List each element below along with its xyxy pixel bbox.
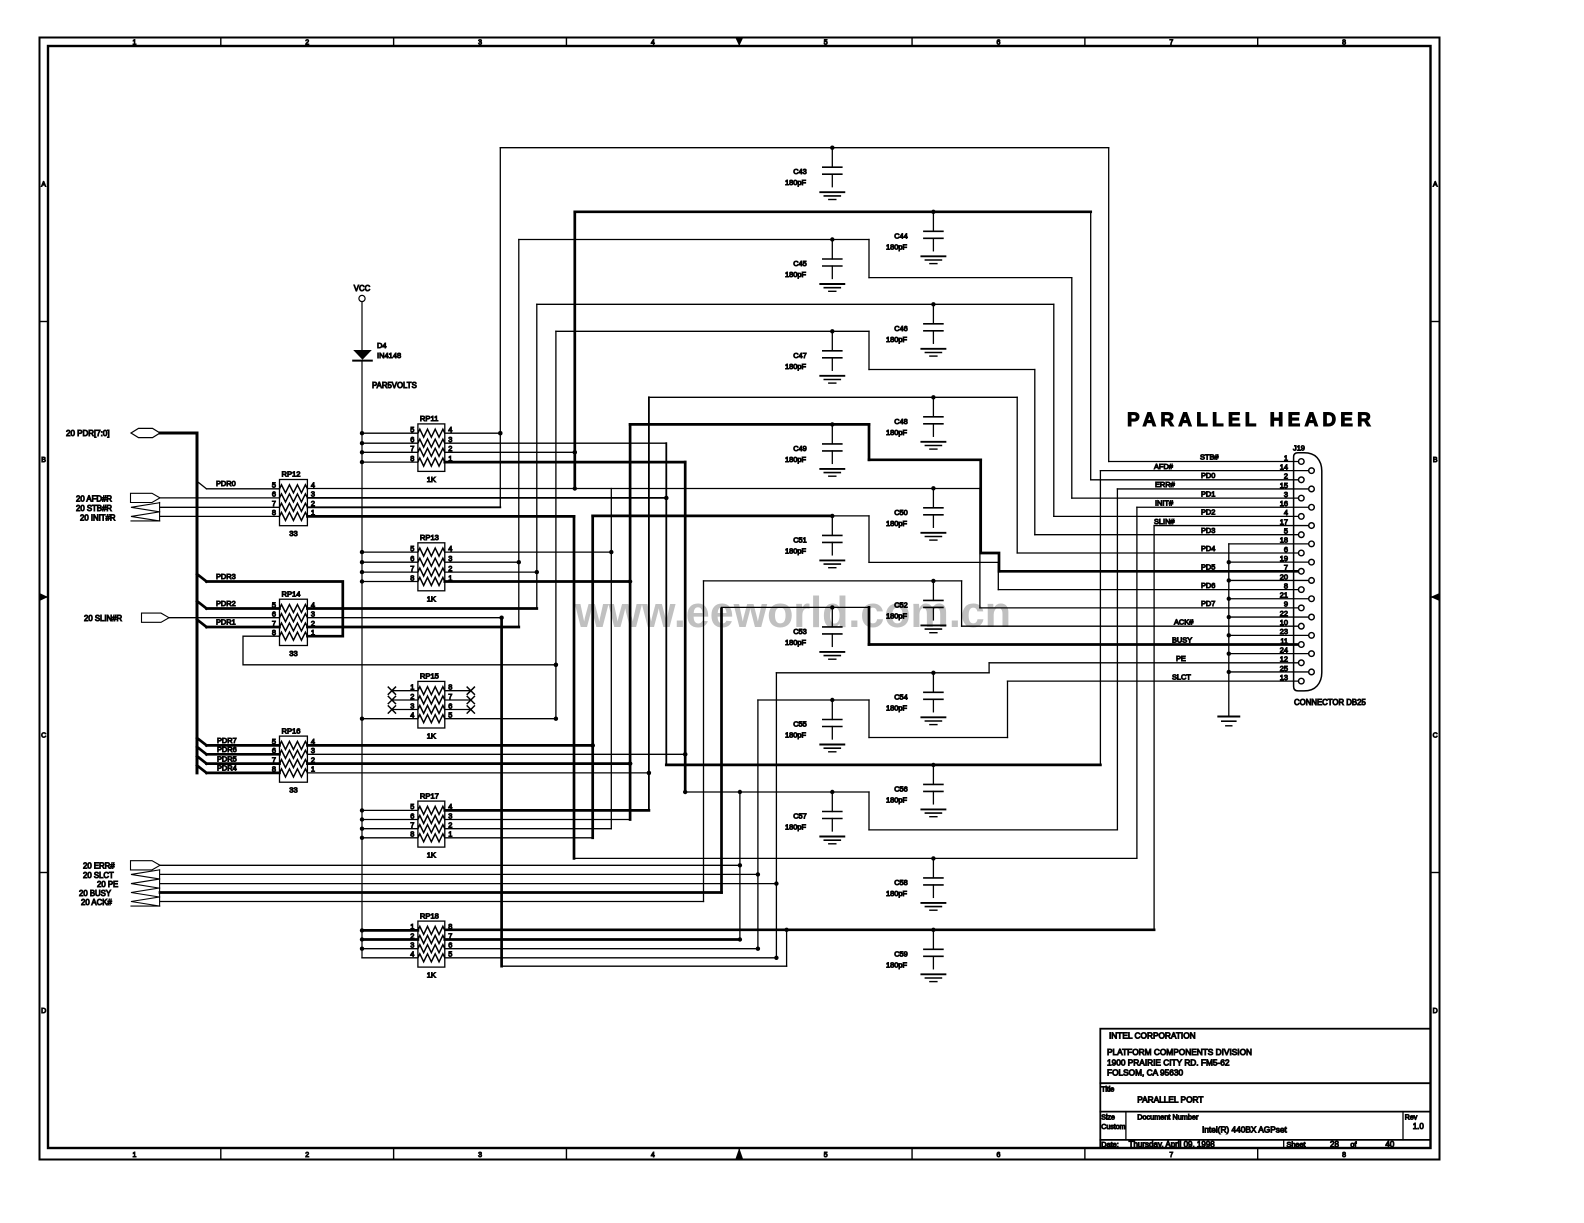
svg-text:PDR5: PDR5	[217, 754, 237, 763]
svg-text:C: C	[41, 732, 46, 739]
svg-text:180pF: 180pF	[785, 546, 806, 555]
svg-text:IN4148: IN4148	[377, 351, 401, 360]
wire PD4 out row	[307, 772, 649, 774]
svg-text:BUSY: BUSY	[1172, 636, 1192, 645]
svg-text:8: 8	[1342, 1152, 1346, 1159]
svg-text:20 PDR[7:0]: 20 PDR[7:0]	[66, 429, 110, 438]
wire ERR# port row	[160, 864, 740, 866]
wire RP13 left pin to PAR5VOLTS	[362, 561, 418, 563]
svg-text:PAR5VOLTS: PAR5VOLTS	[372, 381, 417, 390]
wire PD1 stepped row	[869, 277, 1072, 279]
wire RP11 pin4 row	[445, 432, 501, 434]
title block size cell divider	[1125, 1112, 1127, 1140]
wire RP17 left pin to PAR5VOLTS	[362, 828, 418, 830]
svg-text:8: 8	[272, 508, 276, 517]
wire trunk PD1 x=518.8	[518, 240, 520, 628]
input port SLCT (chevron)	[131, 870, 160, 879]
wire descender AFD#	[1099, 471, 1101, 765]
wire step SLCT at x=869	[868, 700, 870, 738]
wire RP17 pin1 row	[445, 837, 593, 839]
svg-text:C56: C56	[894, 784, 908, 793]
input port SLIN#R	[142, 613, 170, 622]
title block sheet cell divider	[1283, 1140, 1285, 1148]
svg-text:7: 7	[272, 499, 276, 508]
wire PDR3 row (thick)	[207, 582, 343, 637]
svg-text:1K: 1K	[427, 732, 436, 741]
wire RP13 pin1 row (thick)	[445, 580, 630, 583]
title block divider company/title	[1100, 1082, 1430, 1084]
bus tap PDR1	[197, 620, 207, 628]
wire BUSY stub row (thick)	[869, 643, 1299, 646]
wire fan vertical PD3	[1034, 370, 1036, 535]
svg-text:SLCT: SLCT	[1172, 672, 1191, 681]
svg-text:180pF: 180pF	[785, 270, 806, 279]
svg-text:C59: C59	[894, 949, 908, 958]
border section ticks top/bottom	[220, 38, 222, 47]
wire trunk ACK# x=703.5	[703, 581, 705, 902]
svg-text:1K: 1K	[427, 594, 436, 603]
input port BUSY (chevron)	[131, 888, 160, 897]
wire PD3 stepped row	[869, 369, 1035, 371]
ground for C49	[820, 468, 844, 470]
wire RP18 left pin to PAR5VOLTS	[362, 929, 418, 932]
svg-text:Size: Size	[1101, 1114, 1115, 1121]
svg-text:180pF: 180pF	[886, 703, 907, 712]
wire trunk ERR# x=739.9	[739, 792, 741, 940]
wire ERR# stepped row	[869, 829, 1117, 831]
connector pin circles	[1299, 459, 1305, 465]
bus tap PDR6	[197, 747, 207, 755]
no-connect X RP15 right	[445, 699, 471, 701]
svg-text:20 AFD#R: 20 AFD#R	[76, 495, 112, 504]
svg-text:180pF: 180pF	[886, 335, 907, 344]
wire RP17 left pin to PAR5VOLTS	[362, 819, 418, 821]
title block frame	[1100, 1029, 1430, 1148]
svg-text:13: 13	[1280, 673, 1288, 682]
svg-text:7: 7	[1169, 40, 1173, 47]
wire RP13 pin3 row	[445, 561, 519, 563]
capacitor C49 180pF	[830, 422, 834, 426]
capacitor C53 180pF	[830, 605, 834, 609]
wire ground bus	[1228, 544, 1230, 717]
wire stub SLIN# to pin 17	[1154, 525, 1309, 527]
svg-text:1: 1	[1284, 453, 1288, 462]
svg-text:PD3: PD3	[1201, 526, 1215, 535]
svg-text:FOLSOM, CA 95630: FOLSOM, CA 95630	[1107, 1068, 1183, 1078]
svg-text:Thursday, April 09, 1998: Thursday, April 09, 1998	[1129, 1140, 1216, 1149]
svg-text:D: D	[1433, 1008, 1438, 1015]
input port ACK# (chevron)	[131, 897, 160, 906]
wire stub ACK# to pin 10	[962, 625, 1299, 627]
ground for C44	[921, 255, 945, 257]
wire descender INIT#	[1136, 507, 1138, 858]
svg-text:C51: C51	[793, 535, 807, 544]
border section ticks left/right	[40, 321, 49, 323]
wire trunk PD3 x=555.9	[555, 331, 557, 718]
svg-text:8: 8	[1342, 40, 1346, 47]
svg-text:28: 28	[1330, 1140, 1339, 1149]
svg-text:20 BUSY: 20 BUSY	[79, 889, 112, 898]
wire PD6 stepped row	[869, 561, 998, 563]
svg-text:RP18: RP18	[420, 911, 439, 920]
wire step ERR# at x=869	[868, 792, 870, 830]
svg-text:C43: C43	[793, 167, 807, 176]
wire trunk AFD# x=666.3	[665, 443, 667, 765]
svg-text:3: 3	[478, 40, 482, 47]
wire PDR2 row into RP14 (thick)	[207, 607, 280, 610]
wire PDR0 out row (continuous to fan riser)	[307, 488, 980, 490]
ground for C55	[820, 744, 844, 746]
svg-text:14: 14	[1280, 462, 1288, 471]
ground for C53	[820, 651, 844, 653]
wire ground pin 20	[1229, 579, 1309, 581]
wire descender ERR#	[1116, 489, 1118, 830]
capacitor C44 180pF	[931, 210, 935, 214]
title block divider title/size	[1100, 1111, 1430, 1113]
resistor pack RP13 1K	[418, 543, 445, 591]
svg-text:PD5: PD5	[1201, 563, 1215, 572]
svg-text:C49: C49	[793, 444, 807, 453]
svg-text:PARALLEL PORT: PARALLEL PORT	[1137, 1094, 1203, 1104]
svg-text:20 INIT#R: 20 INIT#R	[80, 513, 116, 522]
wire RP18 pin4 to PAR5VOLTS (rail end)	[362, 957, 418, 959]
wire ground pin 24	[1229, 653, 1309, 655]
svg-text:PDR3: PDR3	[216, 572, 236, 581]
resistor pack RP14 33	[280, 599, 308, 645]
svg-text:40: 40	[1385, 1140, 1394, 1149]
svg-text:180pF: 180pF	[785, 638, 806, 647]
wire trunk PD6 x=685.2 (thick)	[684, 462, 687, 792]
svg-text:PD6: PD6	[1201, 581, 1215, 590]
svg-text:180pF: 180pF	[785, 823, 806, 832]
wire SLCT stepped row	[869, 737, 1008, 739]
input port PE (chevron)	[131, 879, 160, 888]
wire RP17 left pin to PAR5VOLTS	[362, 809, 418, 811]
svg-text:D4: D4	[377, 341, 387, 350]
wire trunk PE x=776.4	[775, 673, 777, 958]
border inner frame	[48, 46, 1431, 1148]
svg-text:4: 4	[651, 40, 655, 47]
wire RP18 left pin to PAR5VOLTS	[362, 938, 418, 941]
svg-text:20 SLIN#R: 20 SLIN#R	[84, 614, 123, 623]
svg-text:4: 4	[651, 1152, 655, 1159]
wire trunk SLCT x=757.9	[757, 700, 759, 949]
wire stub PD1 to pin 3	[1072, 497, 1299, 499]
svg-text:6: 6	[997, 1152, 1001, 1159]
wire PDR1 row into RP14 (thick)	[207, 626, 280, 629]
svg-text:PDR6: PDR6	[217, 745, 237, 754]
title block rev cell divider	[1402, 1112, 1404, 1140]
title block divider size/date	[1100, 1139, 1430, 1141]
wire PDR4 row into RP16 (thick)	[207, 772, 280, 775]
capacitor C54 180pF	[931, 671, 935, 675]
wire fan vertical STB#	[1108, 148, 1110, 462]
wire PE port row	[160, 883, 776, 885]
svg-text:ERR#: ERR#	[1155, 480, 1176, 489]
svg-text:1K: 1K	[427, 475, 436, 484]
bus PDR vertical	[196, 433, 199, 773]
wire ground pin 19	[1229, 561, 1309, 563]
wire RP13 left pin to PAR5VOLTS	[362, 571, 418, 573]
svg-text:Rev: Rev	[1405, 1114, 1418, 1121]
wire C57/ERR# row	[685, 791, 869, 793]
wire C56/AFD# row (thick)	[666, 764, 1100, 767]
no-connect X RP15 left	[392, 709, 418, 711]
svg-text:3: 3	[478, 1152, 482, 1159]
svg-text:B: B	[41, 457, 46, 464]
svg-text:J19: J19	[1293, 444, 1305, 453]
svg-text:Sheet: Sheet	[1287, 1140, 1306, 1149]
wire trunk PD2 x=536.8	[536, 304, 538, 608]
svg-text:180pF: 180pF	[886, 428, 907, 437]
wire SLIN# out row	[307, 617, 501, 619]
wire SLCT port row	[160, 873, 758, 875]
wire PAR5VOLTS vertical rail	[361, 361, 363, 958]
ground for C46	[921, 348, 945, 350]
wire PD3 out of RP14 pin8	[243, 636, 556, 665]
wire trunk INIT# x=574.0 (thick)	[573, 516, 576, 858]
wire C46/PD2 row	[537, 303, 1054, 305]
wire stub INIT# to pin 16	[1137, 506, 1309, 508]
wire PD5 stepped row (thick)	[869, 458, 981, 461]
wire RP13 left pin to PAR5VOLTS	[362, 551, 418, 553]
svg-text:PARALLEL HEADER: PARALLEL HEADER	[1127, 410, 1375, 431]
wire C48/PD6 row	[649, 396, 1017, 398]
svg-text:6: 6	[272, 490, 276, 499]
ground for C45	[820, 283, 844, 285]
svg-text:B: B	[1433, 457, 1438, 464]
wire fan vertical ACK#	[961, 581, 963, 626]
port group left rail	[159, 502, 161, 521]
svg-text:C46: C46	[894, 324, 908, 333]
wire RP13 pin4 row	[445, 551, 612, 553]
wire trunk BUSY x=721.5 (thick)	[720, 609, 723, 893]
capacitor C50 180pF	[931, 486, 935, 490]
wire RP17 pin2 row	[445, 828, 612, 830]
wire stub PD4 to pin 6	[1017, 552, 1298, 554]
svg-text:PLATFORM COMPONENTS DIVISION: PLATFORM COMPONENTS DIVISION	[1107, 1047, 1252, 1057]
wire SLIN# long drop	[500, 618, 503, 967]
svg-text:20 STB#R: 20 STB#R	[76, 504, 112, 513]
svg-text:Date:: Date:	[1101, 1140, 1118, 1149]
diode D4 IN4148	[353, 350, 372, 360]
svg-text:17: 17	[1280, 517, 1288, 526]
ground for C54	[921, 716, 945, 718]
wire trunk PD5 x=630.1 (thick)	[629, 424, 632, 819]
svg-text:RP16: RP16	[282, 726, 301, 735]
wire C58/INIT# row	[574, 857, 1137, 859]
svg-text:4: 4	[1284, 508, 1288, 517]
svg-text:180pF: 180pF	[785, 731, 806, 740]
wire RP18 pin5 row PE	[445, 957, 777, 959]
svg-text:1: 1	[132, 40, 136, 47]
svg-text:PD2: PD2	[1201, 508, 1215, 517]
bus tap PDR7	[197, 738, 207, 746]
svg-text:VCC: VCC	[354, 284, 371, 293]
wire RP13 pin2 row	[445, 571, 537, 573]
svg-text:PD0: PD0	[1201, 471, 1215, 480]
svg-text:33: 33	[289, 529, 297, 538]
wire fan vertical PD2	[1053, 304, 1055, 516]
wire step PD1 at x=869	[868, 240, 870, 278]
wire fan vertical PD6	[997, 562, 999, 589]
wire stub PE to pin 12	[989, 662, 1298, 664]
svg-text:20 ACK#: 20 ACK#	[81, 898, 112, 907]
svg-text:A: A	[41, 181, 46, 188]
svg-text:D: D	[41, 1008, 46, 1015]
wire step PD3 at x=869	[868, 331, 870, 369]
wire RP17 left pin to PAR5VOLTS	[362, 837, 418, 839]
svg-text:ACK#: ACK#	[1174, 617, 1194, 626]
svg-text:C54: C54	[894, 692, 908, 701]
wire step PD5 at x=869	[868, 424, 871, 459]
svg-text:2: 2	[1284, 472, 1288, 481]
svg-text:PDR4: PDR4	[217, 764, 237, 773]
bus tap PDR3	[197, 574, 207, 582]
svg-text:6: 6	[1284, 545, 1288, 554]
svg-text:RP14: RP14	[282, 589, 301, 598]
bus tap PDR5	[197, 756, 207, 764]
ground symbol at connector	[1218, 716, 1239, 718]
wire AFD#R port to RP12	[160, 497, 280, 499]
wire stub PD0 to pin 2	[1091, 479, 1299, 481]
wire descender SLCT	[1007, 681, 1009, 737]
svg-text:Intel(R) 440BX AGPset: Intel(R) 440BX AGPset	[1202, 1124, 1288, 1134]
capacitor C59 180pF	[931, 928, 935, 932]
wire RP18 pin6 row SLCT	[445, 948, 758, 950]
wire RP18 pin7 row ERR# (thick)	[445, 938, 740, 941]
bus tap PDR4	[197, 765, 207, 773]
wire ACK# port row	[160, 901, 704, 903]
capacitor C58 180pF	[931, 856, 935, 860]
no-connect X RP15 right	[445, 690, 471, 692]
svg-text:PDR1: PDR1	[216, 618, 236, 627]
svg-text:SLIN#: SLIN#	[1154, 517, 1175, 526]
wire step PD6-C51 at x=869	[868, 516, 870, 563]
svg-text:1K: 1K	[427, 971, 436, 980]
border center markers	[735, 38, 743, 47]
wire fan vertical PD7	[979, 488, 981, 608]
svg-text:180pF: 180pF	[886, 960, 907, 969]
wire stub PD6 to pin 8	[998, 589, 1298, 591]
svg-text:6: 6	[272, 610, 276, 619]
svg-text:PD4: PD4	[1201, 544, 1215, 553]
wire RP15 pin5 row	[445, 718, 556, 720]
ground for C47	[820, 375, 844, 377]
svg-text:Document Number: Document Number	[1137, 1112, 1199, 1121]
wire fan vertical PD0	[1090, 212, 1092, 480]
svg-text:C48: C48	[894, 417, 908, 426]
wire C49/PD5 row (thick)	[630, 423, 869, 426]
svg-text:Title: Title	[1101, 1087, 1114, 1094]
svg-text:5: 5	[824, 40, 828, 47]
resistor pack RP11 1K	[418, 424, 445, 472]
wire INIT#R port to RP12	[160, 515, 280, 517]
wire bus PDR[7:0]	[160, 432, 197, 435]
capacitor C47 180pF	[830, 329, 834, 333]
wire C55/SLCT row	[758, 699, 869, 701]
wire SLIN#R port to RP14	[169, 617, 280, 619]
wire ground pin 25	[1229, 671, 1309, 673]
capacitor C46 180pF	[931, 302, 935, 306]
no-connect X RP15 right	[445, 709, 471, 711]
svg-text:PD1: PD1	[1201, 489, 1215, 498]
wire C44/PD0 row (thick)	[575, 210, 1091, 213]
wire RP13 left pin to PAR5VOLTS	[362, 581, 418, 583]
svg-text:180pF: 180pF	[785, 178, 806, 187]
svg-text:C: C	[1433, 732, 1438, 739]
no-connect X RP15 left	[392, 690, 418, 692]
svg-text:CONNECTOR DB25: CONNECTOR DB25	[1294, 698, 1366, 707]
svg-text:C55: C55	[793, 720, 807, 729]
input port ERR#	[131, 861, 161, 870]
svg-text:PDR7: PDR7	[217, 736, 237, 745]
wire trunk STB# x=500.3	[499, 148, 501, 508]
wire stub PD7 to pin 9	[980, 607, 1299, 609]
wire C51 row (thick left, thin right)	[593, 515, 833, 518]
wire PD2 out row (thick)	[307, 607, 536, 610]
svg-text:3: 3	[1284, 490, 1288, 499]
junction dots on trunks	[498, 431, 502, 435]
svg-text:180pF: 180pF	[886, 611, 907, 620]
svg-text:10: 10	[1280, 618, 1288, 627]
wire RP11 left pin to PAR5VOLTS	[362, 461, 418, 463]
wire ground pin 21	[1229, 598, 1309, 600]
svg-text:20 PE: 20 PE	[97, 880, 118, 889]
svg-text:C47: C47	[793, 351, 807, 360]
wire RP11 pin1 row (thick)	[445, 461, 685, 464]
no-connect X RP15 left	[392, 699, 418, 701]
wire STB#R port to RP12	[160, 506, 280, 508]
ground for C56	[921, 808, 945, 810]
connector J19 DB25 shell	[1294, 453, 1322, 691]
wire VCC to diode D4	[361, 302, 363, 350]
svg-text:1K: 1K	[427, 851, 436, 860]
svg-text:180pF: 180pF	[785, 362, 806, 371]
wire C59/SLIN# row (thick, includes RP18 pin8 row)	[445, 928, 1154, 931]
ground for C50	[921, 532, 945, 534]
svg-text:6: 6	[997, 40, 1001, 47]
wire C53/BUSY row	[722, 606, 870, 608]
wire PD7 out row	[307, 744, 592, 747]
wire RP11 pin2 row	[445, 451, 575, 453]
wire RP18 left pin to PAR5VOLTS	[362, 948, 418, 950]
svg-text:STB#: STB#	[1200, 453, 1219, 462]
wire RP17 pin4 row (thick)	[445, 809, 649, 812]
wire PDR5 row into RP16 (thick)	[207, 762, 280, 765]
svg-text:180pF: 180pF	[785, 455, 806, 464]
wire PD5 out row	[307, 762, 630, 765]
wire C52/ACK# row	[704, 580, 962, 582]
svg-text:Custom: Custom	[1101, 1124, 1125, 1131]
resistor pack RP18 1K	[418, 921, 445, 967]
wire RP11 left pin to PAR5VOLTS	[362, 432, 418, 434]
wire stub PD2 to pin 4	[1054, 515, 1299, 517]
svg-text:1.0: 1.0	[1413, 1122, 1425, 1131]
wire ground pin 18	[1229, 543, 1309, 545]
resistor pack RP16 33	[280, 736, 308, 782]
wire ground pin 22	[1229, 616, 1309, 618]
wire PD1 out row (thick)	[307, 626, 518, 629]
wire PDR6 row into RP16 (thick)	[207, 753, 280, 756]
wire RP15 pin4 to PAR5VOLTS	[362, 718, 418, 720]
wire PDR0 row into RP12	[207, 488, 280, 490]
wire RP11 pin3 row	[445, 442, 667, 444]
svg-text:RP15: RP15	[420, 672, 439, 681]
svg-text:12: 12	[1280, 655, 1288, 664]
svg-text:5: 5	[824, 1152, 828, 1159]
wire trunk PD4 x=648.9	[648, 397, 650, 810]
